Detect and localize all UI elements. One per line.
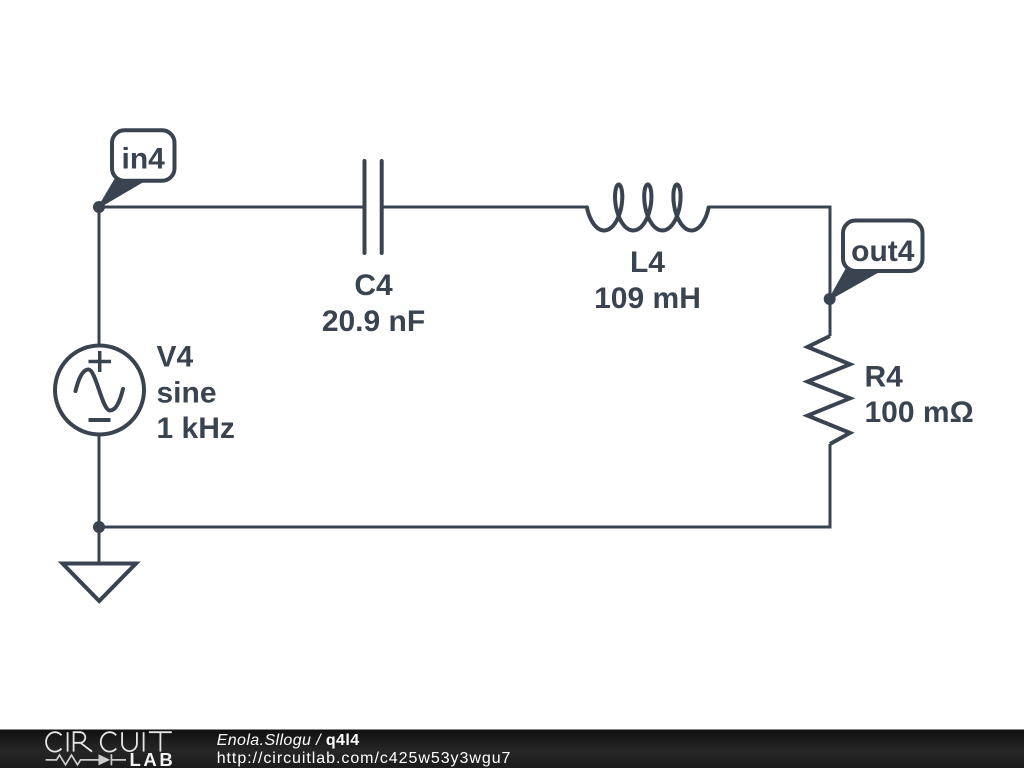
svg-text:out4: out4 (851, 235, 915, 268)
svg-text:100 mΩ: 100 mΩ (865, 396, 974, 429)
svg-text:109 mH: 109 mH (594, 282, 701, 315)
svg-text:http://circuitlab.com/c425w53y: http://circuitlab.com/c425w53y3wgu7 (217, 750, 512, 767)
svg-text:V4: V4 (157, 341, 194, 374)
svg-text:Enola.Sllogu / q4l4: Enola.Sllogu / q4l4 (217, 732, 360, 749)
svg-text:L4: L4 (630, 246, 665, 279)
svg-text:R4: R4 (865, 361, 904, 394)
svg-text:20.9 nF: 20.9 nF (322, 305, 425, 338)
svg-text:in4: in4 (122, 143, 166, 176)
svg-text:C4: C4 (354, 269, 393, 302)
svg-text:LAB: LAB (130, 749, 176, 768)
svg-text:1 kHz: 1 kHz (157, 412, 235, 445)
svg-text:sine: sine (157, 377, 217, 410)
